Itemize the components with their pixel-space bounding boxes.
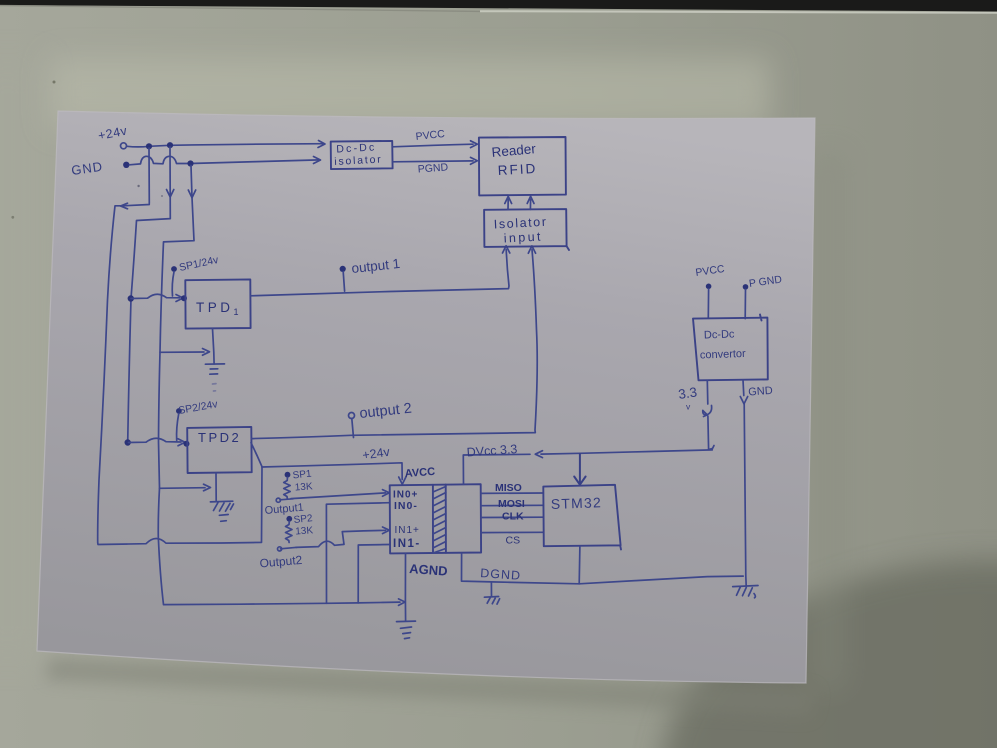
svg-text:IN1-: IN1- bbox=[393, 538, 421, 550]
svg-text:AGND: AGND bbox=[409, 561, 448, 579]
svg-text:IN0-: IN0- bbox=[394, 500, 418, 512]
svg-text:GND: GND bbox=[748, 385, 773, 399]
svg-text:RFID: RFID bbox=[497, 161, 537, 178]
svg-text:TPD2: TPD2 bbox=[198, 430, 241, 445]
svg-text:IN1+: IN1+ bbox=[395, 525, 420, 536]
svg-text:SP2: SP2 bbox=[293, 513, 313, 526]
svg-text:MOSI: MOSI bbox=[498, 498, 525, 510]
svg-text:IN0+: IN0+ bbox=[393, 490, 418, 501]
svg-text:DGND: DGND bbox=[480, 566, 522, 583]
svg-text:AVCC: AVCC bbox=[404, 466, 435, 480]
svg-text:isolator: isolator bbox=[334, 153, 383, 168]
svg-text:13K: 13K bbox=[294, 481, 313, 493]
svg-text:Dc-Dc: Dc-Dc bbox=[704, 328, 735, 341]
svg-text:13K: 13K bbox=[295, 525, 314, 537]
svg-text:input: input bbox=[503, 229, 543, 245]
svg-text:STM32: STM32 bbox=[551, 494, 603, 512]
svg-text:3.3: 3.3 bbox=[677, 385, 698, 402]
svg-text:convertor: convertor bbox=[700, 348, 747, 362]
svg-text:PGND: PGND bbox=[417, 161, 449, 175]
svg-text:SP1: SP1 bbox=[292, 469, 312, 482]
svg-text:MISO: MISO bbox=[495, 482, 522, 494]
svg-text:CLK: CLK bbox=[502, 511, 524, 523]
svg-text:CS: CS bbox=[506, 535, 521, 547]
